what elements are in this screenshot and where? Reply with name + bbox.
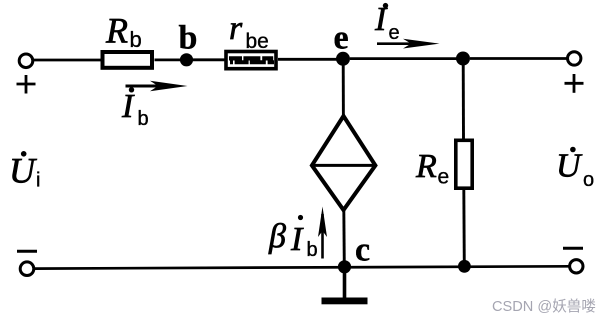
wire: input terminal to Rb (33, 59, 101, 62)
beta*Ib arrow (upward) (318, 207, 327, 259)
svg-text:b: b (307, 239, 318, 261)
node e (336, 52, 350, 66)
label Uo (556, 147, 594, 191)
watermark (492, 298, 596, 315)
wire: Rb to node b (155, 59, 183, 62)
svg-text:R: R (105, 10, 128, 50)
wire: junction to output terminal (470, 57, 567, 60)
svg-text:c: c (355, 232, 370, 269)
label Ie (374, 1, 400, 44)
svg-text:U: U (556, 148, 583, 185)
current Ie arrow (377, 39, 440, 49)
input terminal bottom-left (20, 262, 34, 276)
label c (355, 232, 370, 269)
svg-text:CSDN @妖兽喽: CSDN @妖兽喽 (492, 298, 596, 315)
svg-text:e: e (334, 19, 349, 56)
label beta*Ib (268, 215, 318, 261)
svg-text:i: i (36, 170, 40, 192)
wire: junction down to Re (462, 59, 465, 140)
svg-text:I: I (290, 221, 304, 258)
label Re (415, 148, 449, 189)
svg-text:e: e (389, 22, 400, 44)
svg-text:b: b (138, 108, 149, 130)
minus sign (input) (17, 250, 37, 253)
svg-text:r: r (229, 10, 243, 47)
minus sign (output) (563, 247, 583, 250)
svg-text:e: e (438, 166, 450, 189)
wire: rbe to node e (278, 58, 338, 61)
svg-text:b: b (179, 19, 198, 56)
dependent current source beta*Ib (diamond) (312, 116, 376, 210)
wire: source bottom to node c (342, 208, 345, 266)
input terminal top-left (19, 54, 33, 68)
label Rb (105, 10, 142, 52)
label Ib (121, 87, 149, 130)
ground stub (343, 267, 347, 298)
ground (322, 298, 368, 305)
svg-text:o: o (583, 169, 594, 191)
node c (338, 260, 351, 273)
label rbe (229, 10, 269, 53)
junction node (top of Re) (456, 52, 470, 66)
wire: node b to rbe (191, 58, 226, 61)
plus sign (output) (565, 74, 584, 93)
current Ib arrow (126, 81, 188, 91)
label e (334, 19, 349, 56)
svg-text:be: be (246, 30, 269, 53)
bottom wire (34, 266, 570, 268)
output terminal top-right (568, 52, 581, 65)
wire: node e down to source (342, 59, 345, 118)
bottom junction node (458, 260, 471, 273)
node b (180, 53, 193, 66)
wire: Re to bottom node (462, 188, 465, 266)
svg-text:I: I (121, 88, 135, 125)
resistor Rb (103, 52, 153, 68)
label Ui (9, 150, 40, 191)
plus sign (input) (17, 75, 36, 94)
svg-text:b: b (130, 27, 142, 52)
label b (179, 19, 198, 56)
svg-text:β: β (268, 218, 286, 255)
resistor rbe (226, 52, 276, 69)
svg-text:R: R (415, 148, 437, 185)
output terminal bottom-right (570, 260, 583, 273)
resistor Re (456, 140, 472, 188)
wire: node e to right junction (350, 57, 457, 60)
